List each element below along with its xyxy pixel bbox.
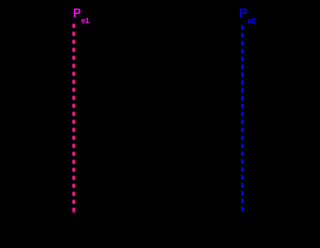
dashed vertical line P_e1 xyxy=(72,24,75,214)
dashed vertical line P_e2 xyxy=(241,25,244,211)
dashed line P_e1 fading tail xyxy=(73,211,76,213)
